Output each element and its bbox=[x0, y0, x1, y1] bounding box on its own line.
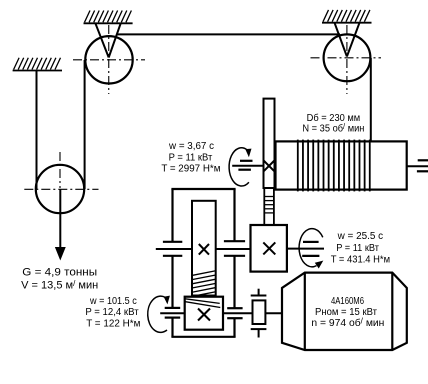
svg-text:N = 35 об/ мин: N = 35 об/ мин bbox=[302, 122, 364, 135]
svg-text:P = 12,4 кВт: P = 12,4 кВт bbox=[85, 307, 139, 318]
svg-text:Dб = 230 мм: Dб = 230 мм bbox=[307, 112, 361, 124]
svg-text:4А160М6: 4А160М6 bbox=[331, 296, 364, 307]
svg-text:Рном = 15 кВт: Рном = 15 кВт bbox=[315, 307, 377, 318]
svg-text:n = 974 об/ мин: n = 974 об/ мин bbox=[311, 316, 384, 329]
svg-text:T = 431.4 Н*м: T = 431.4 Н*м bbox=[331, 254, 390, 265]
svg-text:w = 101.5 c: w = 101.5 c bbox=[89, 296, 137, 307]
svg-text:T = 122 Н*м: T = 122 Н*м bbox=[86, 318, 140, 329]
svg-text:P = 11 кВт: P = 11 кВт bbox=[336, 243, 379, 254]
svg-text:T = 2997 Н*м: T = 2997 Н*м bbox=[161, 163, 220, 174]
svg-text:V = 13,5 м/ мин: V = 13,5 м/ мин bbox=[21, 279, 98, 292]
svg-text:w = 25.5 c: w = 25.5 c bbox=[337, 231, 383, 242]
svg-text:G = 4,9 тонны: G = 4,9 тонны bbox=[22, 267, 97, 279]
svg-text:w = 3,67 c: w = 3,67 c bbox=[168, 141, 214, 152]
svg-text:P = 11 кВт: P = 11 кВт bbox=[169, 152, 213, 163]
